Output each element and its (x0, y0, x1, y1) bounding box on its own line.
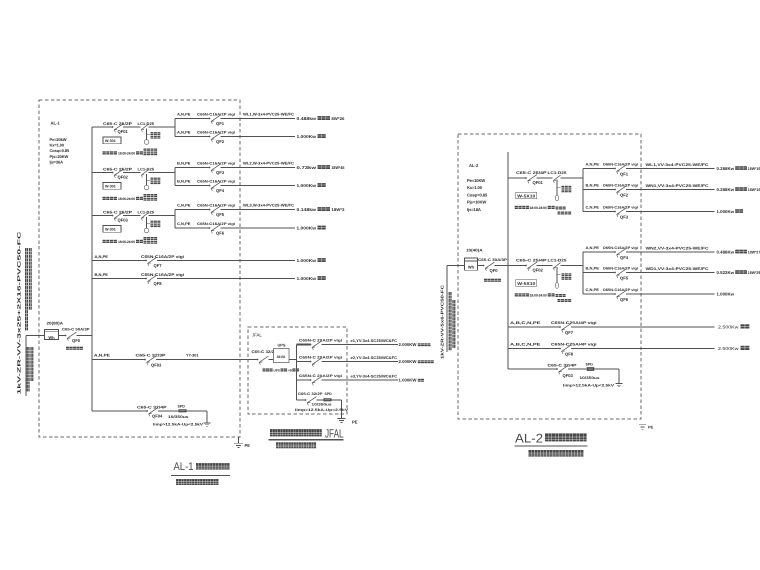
svg-text:1.000Kw: 1.000Kw (297, 183, 317, 188)
svg-text:Iimp>12.5kA-Up<2.5kV: Iimp>12.5kA-Up<2.5kV (563, 383, 615, 387)
load description AL-2 row QF2 (717, 187, 760, 192)
svg-text:A,N,PE: A,N,PE (586, 246, 600, 250)
svg-text:QF8: QF8 (565, 352, 574, 357)
wire AL-1 branch row QF2 (175, 136, 295, 138)
wire AL-2 incoming cable riser (446, 266, 448, 353)
wire AL-1 branch row QF1 (175, 118, 295, 120)
svg-text:WD1,VV-3x4-PVC25-WE/FC: WD1,VV-3x4-PVC25-WE/FC (646, 267, 709, 271)
breaker QF03 C65-C 32/3P (94, 353, 166, 368)
note cable from AL-1 vertical columns (449, 292, 456, 350)
svg-text:WN2,VV-3x4-PVC25-WE/FC: WN2,VV-3x4-PVC25-WE/FC (646, 246, 709, 250)
svg-text:A,B,C,N,PE: A,B,C,N,PE (510, 321, 541, 325)
wire AL-1 incoming cable riser (25, 336, 27, 397)
svg-text:C65N-C25A/4P vigi: C65N-C25A/4P vigi (551, 321, 597, 325)
wire AL-1 branch row QF6 (175, 227, 295, 229)
svg-text:C65N-C16A/2P vigi: C65N-C16A/2P vigi (197, 204, 235, 208)
wire AL-1 incoming feeder horizontal (26, 335, 92, 337)
svg-text:18W*3: 18W*3 (331, 207, 345, 212)
svg-text:0.488kw: 0.488kw (297, 116, 317, 121)
load description AL-2 row QF5 (717, 270, 760, 275)
svg-text:A,N,PE: A,N,PE (94, 353, 110, 358)
time schedule note group1 (103, 151, 143, 155)
svg-text:QF8: QF8 (154, 281, 163, 286)
svg-text:10/350us: 10/350us (580, 376, 600, 380)
svg-text:1.000Kw: 1.000Kw (717, 291, 735, 296)
svg-text:QF01: QF01 (118, 129, 129, 134)
svg-text:W-5X10: W-5X10 (517, 281, 536, 286)
svg-text:C65-C 25/4P: C65-C 25/4P (516, 171, 547, 175)
wire AL-2 direct branch QF8 (508, 348, 715, 350)
svg-text:1.000Kw: 1.000Kw (297, 276, 317, 281)
svg-text:PE: PE (352, 420, 358, 425)
svg-text:C65N-C16A/2P vigi: C65N-C16A/2P vigi (197, 131, 235, 135)
svg-text:4kVA: 4kVA (277, 355, 286, 359)
breaker QF01 C65-C 25/2P (103, 122, 133, 134)
AL-2 load parameters (467, 178, 488, 212)
node junction AL-2 group2 split (582, 252, 584, 294)
wire AL-1 group3 feeder from bus (92, 215, 175, 217)
label 20(80)A meter rating (47, 321, 64, 326)
breaker QF0 C65-C 20A/3P AL-2 (478, 258, 508, 273)
wire AL-2 group2 feeder from bus (508, 265, 583, 267)
load description JFAL row e1 (399, 342, 431, 347)
svg-text:QF03: QF03 (118, 217, 129, 222)
svg-text:A,N,PE: A,N,PE (177, 131, 191, 135)
breaker QF3 C65N-C16A/2P vigi (177, 162, 235, 175)
surge arrester SPD JFAL (324, 398, 332, 401)
svg-text:QF04: QF04 (152, 413, 163, 418)
svg-text:2.500Kw: 2.500Kw (718, 346, 740, 351)
svg-text:0.522Kw: 0.522Kw (717, 270, 735, 275)
wire AL-2 branch row QF1 (583, 168, 715, 170)
svg-text:QF6: QF6 (216, 231, 225, 236)
breaker QF4 D65N-C16A/2P vigi (586, 246, 639, 260)
wire AL-2 group1 feeder from bus (508, 177, 583, 179)
svg-text:A,N,PE: A,N,PE (95, 254, 109, 259)
breaker JFAL input C65-C 32/2P (252, 350, 278, 365)
svg-text:W-301: W-301 (105, 185, 116, 189)
note online UPS backup 30min (263, 368, 300, 372)
contactor KM3 LC1-D25 (138, 210, 155, 220)
svg-text:W-5X10: W-5X10 (517, 193, 536, 198)
meter Wh kWh-meter AL-2 (465, 258, 478, 270)
svg-text:10/350us: 10/350us (168, 415, 189, 419)
svg-text:WL2,W-3x4-PVC25-WE/FC: WL2,W-3x4-PVC25-WE/FC (243, 162, 294, 166)
svg-text:C65-C 25/4P: C65-C 25/4P (516, 258, 547, 262)
cable label 1kV-ZR-VV-3x25+2X16-PVC50-FC vertical (17, 230, 22, 395)
wire AL-1 SPD branch (92, 410, 207, 412)
cable label e1 (351, 339, 398, 343)
svg-text:PE: PE (648, 425, 654, 430)
svg-text:UPS: UPS (274, 368, 281, 372)
node junction group2 pair split (174, 168, 176, 186)
UPS unit 4kVA (274, 343, 297, 363)
AL-1 load parameters (50, 137, 71, 164)
load description AL-2 row QF6 (717, 291, 735, 296)
svg-text:18:00-24:00: 18:00-24:00 (530, 206, 547, 210)
svg-text:Ijs=18A: Ijs=18A (467, 207, 481, 212)
svg-text:Kx=1.00: Kx=1.00 (50, 143, 65, 148)
breaker QF7 C65N-C25A/4P vigi (510, 321, 597, 335)
title AL-1 system diagram (171, 461, 230, 475)
wire JFAL branch row e2 (297, 361, 399, 363)
svg-text:Iimp>12.5kA-Up<2.5kV: Iimp>12.5kA-Up<2.5kV (295, 408, 349, 412)
wire AL-2 incoming feeder horizontal (447, 265, 508, 267)
contactor KM2 LC1-D25 (138, 167, 155, 177)
breaker QF1 D65N-C16A/2P vigi (586, 163, 639, 177)
wire AL-2 main bus (507, 152, 509, 369)
svg-text:D65N-C16A/2P vigi: D65N-C16A/2P vigi (603, 163, 638, 167)
panel AL-2 dashed enclosure (458, 134, 641, 419)
svg-text:JFAL: JFAL (325, 427, 344, 441)
wire JFAL branch row e1 (297, 344, 399, 346)
wire AL-1 branch to JFAL (YY-301) (92, 359, 258, 361)
svg-text:QF5: QF5 (620, 276, 629, 281)
svg-text:UPS: UPS (278, 343, 286, 348)
time-control coil group1 (144, 129, 161, 156)
cable label WD1 AL-2 (646, 267, 709, 271)
svg-text:C65-C 32/4P: C65-C 32/4P (137, 405, 167, 409)
svg-text:1.000Kw: 1.000Kw (717, 209, 735, 214)
svg-text:C,N,PE: C,N,PE (177, 204, 191, 208)
svg-text:C65-C 32/2P: C65-C 32/2P (298, 392, 323, 396)
svg-text:LC1-D25: LC1-D25 (138, 167, 155, 171)
svg-text:C65N-C16A/2P vigi: C65N-C16A/2P vigi (197, 113, 235, 117)
load description row QF7 (297, 258, 326, 263)
svg-text:QF03: QF03 (151, 363, 162, 368)
wire AL-1 main bus (91, 127, 93, 411)
svg-text:LC1-D25: LC1-D25 (138, 122, 155, 126)
svg-text:20(80)A: 20(80)A (47, 321, 64, 326)
cable label YY-301 (186, 354, 199, 358)
svg-text:PE: PE (245, 443, 251, 448)
svg-text:D65N-C16A/2P vigi: D65N-C16A/2P vigi (603, 184, 638, 188)
svg-text:QF5: QF5 (216, 212, 225, 217)
svg-text:C65N-C16A/2P vigi: C65N-C16A/2P vigi (141, 254, 184, 259)
svg-text:B,N,PE: B,N,PE (177, 162, 191, 166)
svg-text:C65-C 30A/3P: C65-C 30A/3P (478, 258, 508, 262)
svg-text:SPD: SPD (586, 362, 594, 366)
breaker JFAL QF2 C65N-C 20A/2P vigi (299, 356, 342, 367)
svg-text:QF02: QF02 (118, 174, 129, 179)
svg-text:QF3: QF3 (216, 170, 225, 175)
svg-text:W-301: W-301 (105, 139, 116, 143)
breaker QF6 D65N-C16A/2P vigi (586, 288, 639, 302)
breaker QF7 C65N-C16A/2P vigi (95, 254, 185, 268)
svg-text:10(40)A: 10(40)A (466, 248, 483, 253)
svg-text:0.148kw: 0.148kw (297, 207, 317, 212)
wire AL-1 branch row QF4 (175, 185, 295, 187)
svg-text:18W*16: 18W*16 (748, 187, 760, 192)
svg-text:QF7: QF7 (565, 330, 574, 335)
wire AL-1 direct branch QF8 (92, 278, 295, 280)
svg-text:2.000KW: 2.000KW (399, 342, 417, 347)
breaker JFAL QF3 C65N-C 20A/2P vigi (299, 374, 342, 385)
wire AL-2 branch row QF3 (583, 211, 715, 213)
wire label W-301 group2 (103, 183, 121, 190)
svg-text:SPD: SPD (178, 404, 186, 408)
load description AL-2 row QF7 (718, 324, 749, 329)
svg-text:QF02: QF02 (533, 268, 544, 273)
time-control coil group3 (144, 217, 161, 244)
wire AL-1 group2 feeder from bus (92, 172, 175, 174)
svg-text:18W*27: 18W*27 (748, 249, 760, 254)
svg-text:0.288Kw: 0.288Kw (717, 187, 735, 192)
svg-text:18:00-24:00: 18:00-24:00 (118, 151, 135, 155)
cable label WN1 AL-2 (646, 184, 709, 188)
svg-text:C65N-C16A/2P vigi: C65N-C16A/2P vigi (141, 272, 184, 277)
node junction group3 pair split (174, 210, 176, 229)
ground PE terminal AL-1 (234, 437, 250, 448)
svg-text:e3,YV-3x4-SC25/WC&FC: e3,YV-3x4-SC25/WC&FC (351, 375, 398, 379)
cable label e2 (351, 356, 398, 360)
svg-text:QF1: QF1 (216, 121, 225, 126)
panel AL-1 dashed enclosure (39, 100, 240, 437)
note meter-box wiring AL-2 (484, 279, 501, 282)
load description row QF2 (297, 134, 326, 139)
svg-text:QF2: QF2 (216, 139, 225, 144)
svg-text:Cosφ=0.85: Cosφ=0.85 (50, 148, 71, 153)
svg-text:1.000Kw: 1.000Kw (297, 258, 317, 263)
svg-text:18W*29: 18W*29 (748, 270, 760, 275)
svg-text:C65-C 25/2P: C65-C 25/2P (103, 210, 133, 214)
svg-text:C65-C 32/4P: C65-C 32/4P (548, 364, 578, 368)
breaker QF5 D65N-C16A/2P vigi (586, 267, 639, 281)
svg-text:D65N-C16A/2P vigi: D65N-C16A/2P vigi (603, 246, 638, 250)
svg-text:SPD: SPD (325, 392, 333, 396)
svg-text:C,N,PE: C,N,PE (586, 288, 600, 292)
svg-text:WL3,W-3x4-PVC25-WE/FC: WL3,W-3x4-PVC25-WE/FC (243, 204, 294, 208)
wire label W-5X10 group2 (516, 280, 537, 286)
svg-text:YY-301: YY-301 (186, 354, 199, 358)
time-control coil AL-2 group1 (555, 180, 571, 215)
svg-text:QF6: QF6 (620, 297, 629, 302)
svg-text:WN1,VV-3x4-PVC25-WE/FC: WN1,VV-3x4-PVC25-WE/FC (646, 184, 709, 188)
load description AL-2 row QF8 (718, 346, 749, 351)
breaker QF0 C65-C 50A/3P (62, 328, 90, 344)
ground PE terminal AL-2 (639, 425, 654, 430)
wire AL-1 group1 feeder from bus (92, 126, 175, 128)
time schedule note AL-2 group2 (515, 293, 555, 297)
svg-text:1.000Kw: 1.000Kw (297, 134, 317, 139)
breaker QF5 C65N-C16A/2P vigi (177, 204, 235, 217)
svg-text:AL-2: AL-2 (469, 163, 479, 168)
breaker QF01 C65-C 25/4P AL-2 (516, 171, 547, 185)
surge arrester SPD (153, 404, 204, 426)
svg-text:AL-1: AL-1 (174, 461, 194, 473)
time schedule note group2 (103, 197, 143, 201)
svg-text:QF4: QF4 (620, 255, 629, 260)
load description JFAL row e3 (399, 378, 424, 383)
svg-text:C65-C 50A/3P: C65-C 50A/3P (62, 328, 90, 332)
breaker QF1 C65N-C16A/2P vigi (177, 113, 235, 126)
time-control coil group2 (144, 174, 161, 201)
breaker QF03 C65-C 25/2P (103, 210, 133, 222)
wire label W-301 group1 (103, 137, 121, 144)
cable label WL2 (243, 162, 294, 166)
svg-text:Pe=20kW: Pe=20kW (50, 137, 67, 142)
wire AL-2 branch row QF6 (583, 293, 715, 295)
svg-text:QF0: QF0 (72, 338, 81, 343)
load description row QF3 (297, 165, 346, 170)
svg-text:1kV-ZR-VV-3x25+2X16-PVC50-FC: 1kV-ZR-VV-3x25+2X16-PVC50-FC (17, 230, 22, 395)
svg-text:D65N-C16A/2P vigi: D65N-C16A/2P vigi (603, 206, 638, 210)
wire AL-1 branch row QF5 (175, 209, 295, 211)
svg-text:e1,YV-3x4-SC25/WC&FC: e1,YV-3x4-SC25/WC&FC (351, 339, 398, 343)
load description row QF1 (297, 116, 346, 121)
time-control coil AL-2 group2 (555, 267, 571, 302)
svg-text:QF4: QF4 (216, 188, 225, 193)
wire AL-2 branch row QF4 (583, 251, 715, 253)
svg-text:e2,YV-3x4-SC25/WC&FC: e2,YV-3x4-SC25/WC&FC (351, 356, 398, 360)
note cable buried note vertical columns (25, 248, 33, 391)
load description row QF8 (297, 276, 326, 281)
svg-text:JFAL: JFAL (252, 333, 262, 338)
svg-text:QF1: QF1 (620, 172, 629, 177)
svg-text:Ijs=36A: Ijs=36A (50, 159, 64, 164)
svg-text:18W*16: 18W*16 (748, 166, 760, 171)
svg-text:2.000KW: 2.000KW (399, 359, 417, 364)
subtitle install location AL-2 (529, 450, 584, 457)
svg-text:LC1-D25: LC1-D25 (548, 258, 567, 262)
load description AL-2 row QF1 (717, 166, 760, 171)
svg-text:1.000KW: 1.000KW (399, 378, 417, 383)
wire AL-2 direct branch QF7 (508, 326, 715, 328)
svg-text:Wh: Wh (48, 335, 55, 340)
label 10(40)A meter rating (466, 248, 483, 253)
wire AL-1 branch row QF3 (175, 167, 295, 169)
svg-text:1kV-ZR-VV-5x6-PVC50-FC: 1kV-ZR-VV-5x6-PVC50-FC (440, 285, 445, 359)
svg-text:C65N-C16A/2P vigi: C65N-C16A/2P vigi (197, 162, 235, 166)
subtitle install location AL-1 (176, 479, 218, 485)
breaker QF02 C65-C 25/4P AL-2 (516, 258, 547, 272)
svg-text:C,N,PE: C,N,PE (586, 206, 600, 210)
svg-text:Iimp>12.5kA-Up<2.5kV: Iimp>12.5kA-Up<2.5kV (153, 423, 204, 427)
svg-text:Cosφ=0.85: Cosφ=0.85 (467, 192, 488, 197)
svg-text:0.73kw: 0.73kw (297, 165, 318, 170)
svg-text:QF03: QF03 (563, 373, 574, 378)
svg-text:C65N-C16A/2P vigi: C65N-C16A/2P vigi (197, 180, 235, 184)
node junction AL-2 group1 split (582, 169, 584, 212)
breaker QF03 C65-C 32/4P AL-2 (548, 364, 578, 379)
wire label W-301 group3 (103, 226, 121, 233)
meter Wh kWh-meter (45, 330, 59, 340)
ground PE JFAL (338, 419, 358, 425)
svg-text:LC1-D25: LC1-D25 (548, 171, 567, 175)
breaker QF3 D65N-C16A/2P vigi (586, 206, 639, 220)
svg-text:>30: >30 (288, 368, 294, 372)
svg-text:AL-1: AL-1 (51, 121, 61, 126)
svg-text:AL-2: AL-2 (515, 432, 543, 446)
load description row QF6 (297, 225, 326, 230)
cable label WL1 (243, 113, 294, 117)
svg-text:18:00-24:00: 18:00-24:00 (118, 240, 135, 244)
svg-text:Pjs=20KW: Pjs=20KW (50, 154, 69, 159)
wire JFAL branch row e3 (297, 379, 399, 381)
svg-text:A,N,PE: A,N,PE (177, 113, 191, 117)
wire AL-1 direct branch QF7 (92, 260, 295, 262)
svg-text:B,N,PE: B,N,PE (177, 180, 191, 184)
svg-text:D65N-C16A/2P vigi: D65N-C16A/2P vigi (603, 288, 638, 292)
wire JFAL internal bus (296, 345, 298, 401)
cable label WL3 (243, 204, 294, 208)
svg-text:B,N,PE: B,N,PE (95, 272, 109, 277)
wire AL-2 SPD branch (508, 368, 619, 370)
breaker JFAL SPD C65-C 32/2P SPD (295, 392, 349, 412)
svg-text:LC1-D25: LC1-D25 (138, 210, 155, 214)
svg-text:Kx=1.00: Kx=1.00 (467, 185, 483, 190)
panel JFAL dashed enclosure (248, 327, 347, 414)
svg-text:QF2: QF2 (620, 193, 629, 198)
breaker QF8 C65N-C16A/2P vigi (95, 272, 185, 286)
svg-text:QF3: QF3 (620, 215, 629, 220)
load description row QF4 (297, 183, 326, 188)
wire label W-5X10 group1 (516, 192, 537, 198)
svg-text:Pjs=10KW: Pjs=10KW (467, 200, 486, 205)
surge arrester SPD AL-2 (563, 362, 615, 387)
svg-text:10/350us: 10/350us (312, 403, 332, 407)
svg-text:8W*26: 8W*26 (331, 116, 345, 121)
svg-text:WL1,W-3x4-PVC25-WE/FC: WL1,W-3x4-PVC25-WE/FC (243, 113, 294, 117)
cable label 1kV-ZR-VV-5x6-PVC50-FC vertical (440, 285, 445, 359)
breaker QF8 C65N-C25A/4P vigi (510, 343, 597, 357)
cable label e3 (351, 375, 398, 379)
node AL-1 label (51, 121, 61, 126)
note meter-box wiring (66, 347, 83, 350)
svg-text:C65N-C25A/4P vigi: C65N-C25A/4P vigi (551, 343, 597, 347)
svg-text:18:00-24:00: 18:00-24:00 (530, 293, 547, 297)
svg-text:C65-C 32/3P: C65-C 32/3P (136, 354, 167, 358)
ground SPD earth AL-2 (616, 369, 623, 387)
svg-text:QF0: QF0 (490, 268, 499, 273)
svg-text:C65-C 25/2P: C65-C 25/2P (103, 167, 133, 171)
contactor KM2 LC1-D25 AL-2 (548, 258, 567, 270)
load description AL-2 row QF3 (717, 209, 743, 214)
breaker QF2 D65N-C16A/2P vigi (586, 184, 639, 198)
breaker QF02 C65-C 25/2P (103, 167, 133, 179)
svg-text:C65-C 25/2P: C65-C 25/2P (103, 122, 133, 126)
cable label WL1 AL-2 (646, 163, 709, 167)
breaker QF4 C65N-C16A/2P vigi (177, 180, 235, 193)
svg-text:A,B,C,N,PE: A,B,C,N,PE (510, 343, 541, 347)
svg-text:QF7: QF7 (154, 263, 163, 268)
ground SPD earth AL-1 (204, 411, 211, 426)
svg-text:Pe=10KW: Pe=10KW (467, 178, 485, 183)
title AL-2 system diagram (515, 432, 588, 447)
load description JFAL row e2 (399, 359, 434, 364)
breaker QF2 C65N-C16A/2P vigi (177, 131, 235, 144)
title JFAL system diagram (269, 427, 344, 441)
contactor KM1 LC1-D25 AL-2 (548, 171, 567, 183)
node AL-2 label (469, 163, 479, 168)
node junction group1 pair split (174, 119, 176, 137)
load description AL-2 row QF4 (717, 249, 760, 254)
svg-text:QF01: QF01 (533, 180, 544, 185)
contactor KM1 LC1-D25 (138, 122, 155, 132)
svg-text:Wh: Wh (468, 265, 475, 270)
svg-text:B,N,PE: B,N,PE (586, 184, 600, 188)
svg-text:18W*45: 18W*45 (331, 165, 345, 170)
svg-text:B,N,PE: B,N,PE (586, 267, 600, 271)
svg-text:A,N,PE: A,N,PE (586, 163, 600, 167)
svg-text:0.488Kw: 0.488Kw (717, 249, 735, 254)
time schedule note group3 (103, 240, 143, 244)
wire AL-2 branch row QF5 (583, 272, 715, 274)
svg-text:C,N,PE: C,N,PE (177, 222, 191, 226)
svg-text:W-301: W-301 (105, 228, 116, 232)
cable label WN2 AL-2 (646, 246, 709, 250)
svg-text:C65N-C16A/2P vigi: C65N-C16A/2P vigi (197, 222, 235, 226)
